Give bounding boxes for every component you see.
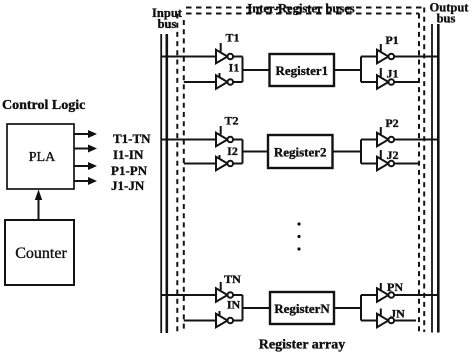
tri-state buffer TN bbox=[216, 272, 241, 302]
register Register1 bbox=[270, 54, 335, 86]
wire P1 to output bus bbox=[394, 56, 438, 58]
svg-text:Inter-Register buses: Inter-Register buses bbox=[247, 2, 354, 16]
wire J2 to inter-register bus bbox=[394, 163, 419, 165]
svg-text:bus: bus bbox=[158, 17, 177, 31]
svg-text:Register array: Register array bbox=[259, 338, 345, 353]
tri-state buffer I1 bbox=[216, 61, 239, 89]
wire inter-register bus to IN bbox=[184, 320, 216, 322]
wire PN to output bus bbox=[394, 294, 438, 296]
wire JN to inter-register bus bbox=[394, 320, 416, 322]
wire I1 output bbox=[233, 81, 242, 83]
wire I2 output bbox=[233, 163, 242, 165]
wire input bus to TN bbox=[161, 294, 216, 296]
wire Register2 output to P2/J2 node bbox=[333, 140, 378, 164]
wire TN output bbox=[233, 294, 242, 296]
input bus bbox=[161, 34, 167, 333]
wire J1 to inter-register bus bbox=[394, 81, 419, 83]
wire T2 output bbox=[233, 139, 242, 141]
label Input bus bbox=[152, 6, 183, 31]
wire inter-register bus to I2 bbox=[184, 163, 216, 165]
wire counter to PLA (arrow up) bbox=[35, 190, 42, 221]
svg-text:J1: J1 bbox=[387, 67, 399, 81]
svg-text:I1-IN: I1-IN bbox=[113, 147, 144, 162]
register RegisterN bbox=[270, 292, 334, 324]
tri-state buffer T1 bbox=[216, 31, 240, 64]
wire inter-register bus to I1 bbox=[184, 81, 216, 83]
svg-text:RegisterN: RegisterN bbox=[274, 301, 330, 316]
inter-register buses: top horizontal dashed pair bbox=[186, 8, 424, 14]
inter-register bus: right vertical dashed pair bbox=[419, 8, 424, 333]
svg-text:P1-PN: P1-PN bbox=[111, 163, 148, 178]
svg-text:Register1: Register1 bbox=[275, 63, 328, 78]
PLA output arrow 1 bbox=[74, 130, 97, 138]
tri-state buffer I2 bbox=[216, 144, 238, 170]
svg-text:Control Logic: Control Logic bbox=[2, 98, 85, 113]
svg-text:IN: IN bbox=[227, 298, 241, 312]
PLA output arrow 2 bbox=[74, 145, 97, 153]
PLA output arrow 4 bbox=[74, 177, 97, 185]
counter box bbox=[5, 220, 74, 285]
tri-state buffer IN bbox=[216, 298, 240, 328]
PLA output arrow 3 bbox=[74, 162, 97, 170]
wire IN output bbox=[233, 320, 242, 322]
wire RegisterN output to PN/JN node bbox=[334, 295, 377, 321]
output bus bbox=[432, 24, 438, 333]
svg-text:PLA: PLA bbox=[29, 150, 56, 165]
svg-text:T1: T1 bbox=[225, 31, 239, 45]
svg-text:PN: PN bbox=[387, 280, 403, 294]
tri-state buffer P2 bbox=[377, 116, 399, 146]
wire junction node to Register1 input bbox=[243, 57, 270, 83]
svg-text:Register2: Register2 bbox=[274, 145, 327, 160]
svg-text:T2: T2 bbox=[224, 114, 238, 128]
svg-text:JN: JN bbox=[390, 307, 405, 321]
tri-state buffer J1 bbox=[377, 67, 399, 89]
wire Register1 output to P1/J1 node bbox=[334, 57, 377, 83]
svg-text:J2: J2 bbox=[387, 148, 399, 162]
svg-text:I1: I1 bbox=[229, 61, 240, 75]
tri-state buffer JN bbox=[377, 307, 405, 328]
label Output bus bbox=[430, 1, 470, 26]
svg-text:Counter: Counter bbox=[15, 245, 67, 262]
svg-text:I2: I2 bbox=[227, 144, 238, 158]
svg-text:TN: TN bbox=[224, 272, 241, 286]
wire input bus to T1 bbox=[161, 56, 216, 58]
svg-text:P1: P1 bbox=[385, 33, 398, 47]
continuation dots (vertical ellipsis) bbox=[297, 222, 300, 250]
wire junction node to RegisterN input bbox=[243, 295, 271, 321]
tri-state buffer P1 bbox=[377, 33, 399, 63]
inter-register bus: left vertical dashed pair bbox=[177, 14, 184, 333]
tri-state buffer T2 bbox=[216, 114, 239, 147]
svg-text:P2: P2 bbox=[385, 116, 398, 130]
svg-text:bus: bus bbox=[437, 12, 456, 26]
wire input bus to T2 bbox=[161, 139, 216, 141]
PLA box bbox=[7, 124, 74, 189]
wire P2 to output bus bbox=[394, 139, 438, 141]
wire junction node to Register2 input bbox=[243, 140, 269, 164]
tri-state buffer PN bbox=[377, 280, 403, 302]
svg-text:J1-JN: J1-JN bbox=[111, 178, 145, 193]
tri-state buffer J2 bbox=[377, 148, 399, 170]
svg-text:T1-TN: T1-TN bbox=[113, 131, 151, 146]
register Register2 bbox=[268, 135, 333, 168]
wire T1 output bbox=[233, 56, 242, 58]
